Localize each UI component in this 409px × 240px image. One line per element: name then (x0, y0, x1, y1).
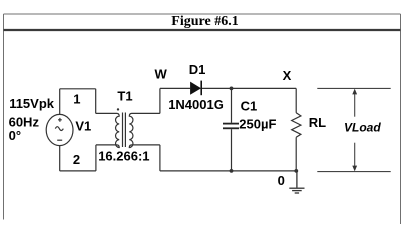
wire top rail to diode (160, 87, 190, 89)
svg-text:0°: 0° (9, 128, 21, 143)
V1 value labels 115Vpk 60Hz 0deg (9, 96, 55, 143)
junction top of C1 (230, 87, 234, 91)
junction bottom of C1 (230, 169, 234, 173)
VLoad indicator bottom line (317, 171, 390, 173)
wire bottom rail (160, 170, 296, 172)
svg-text:Figure #6.1: Figure #6.1 (171, 14, 238, 29)
VLoad up arrow (352, 89, 357, 117)
svg-text:1N4001G: 1N4001G (168, 97, 224, 112)
wire V1 top riser (59, 89, 61, 115)
resistor RL (292, 113, 301, 138)
transformer T1 (96, 113, 160, 148)
svg-text:V1: V1 (75, 118, 91, 133)
svg-text:T1: T1 (117, 88, 132, 103)
voltage source V1 (46, 114, 73, 145)
wire V1 bottom riser (59, 146, 61, 171)
VLoad indicator top line (317, 87, 390, 89)
svg-text:250µF: 250µF (239, 116, 276, 131)
T1 phasing dot (117, 108, 119, 110)
junction ground node (294, 169, 298, 173)
svg-text:0: 0 (278, 173, 285, 188)
svg-text:VLoad: VLoad (344, 120, 381, 134)
svg-text:1: 1 (73, 92, 80, 107)
wire secondary top riser to node W (159, 88, 161, 113)
diode D1 (190, 81, 201, 96)
ground (289, 171, 304, 193)
wire down to transformer pin level (95, 89, 97, 114)
wire top horizontal to transformer (60, 88, 96, 90)
wire C1 bottom branch (231, 129, 233, 171)
capacitor C1 (223, 124, 239, 129)
VLoad down arrow (352, 143, 357, 172)
wire secondary bottom riser (159, 145, 161, 171)
svg-text:C1: C1 (241, 98, 258, 113)
wire up to transformer bottom pin (95, 145, 97, 171)
svg-text:115Vpk: 115Vpk (9, 96, 55, 111)
svg-text:W: W (155, 67, 168, 82)
wire bottom horizontal (60, 170, 96, 172)
svg-text:RL: RL (309, 115, 326, 130)
wire RL bottom branch (295, 137, 297, 171)
svg-text:2: 2 (73, 152, 80, 167)
wire RL top branch (295, 88, 297, 112)
svg-text:X: X (283, 68, 292, 83)
svg-text:D1: D1 (189, 62, 206, 77)
wire top rail diode to node X corner (202, 87, 296, 89)
wire C1 top branch (231, 88, 233, 122)
svg-text:16.266:1: 16.266:1 (98, 148, 149, 163)
